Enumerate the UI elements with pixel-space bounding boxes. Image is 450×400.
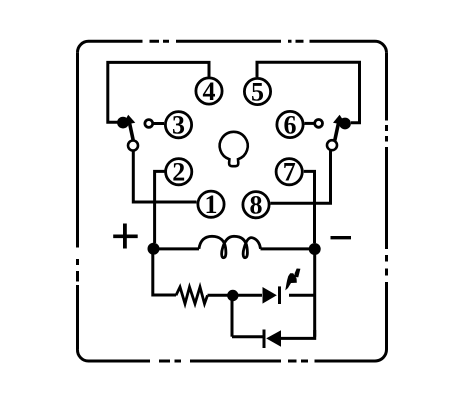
top-right corner [375, 41, 387, 53]
terminal circle beside pin 3 [145, 120, 153, 128]
plus terminal label [113, 224, 138, 249]
bottom row wire left of diode [232, 335, 263, 338]
wire from pin 7 right and down to minus node [304, 171, 315, 243]
wire from left switch contact down and right to pin 1 [133, 151, 196, 203]
svg-text:4: 4 [203, 77, 216, 106]
svg-text:2: 2 [172, 158, 185, 187]
left edge [76, 52, 79, 349]
resistor [176, 287, 208, 304]
pin 1 [198, 190, 224, 219]
wire stub from terminal circle to pin 3 [153, 122, 164, 125]
right edge [385, 53, 388, 350]
pin 5 [244, 78, 270, 107]
top edge [89, 40, 376, 43]
right switch normally-open contact (open circle) [327, 140, 337, 150]
plus node junction dot [148, 243, 160, 255]
coil bus wire left segment [154, 247, 200, 250]
minus node junction dot [309, 243, 321, 255]
bottom-left corner [77, 350, 88, 362]
svg-text:7: 7 [283, 158, 296, 187]
left switch moving-contact blade with arrowhead [123, 115, 136, 141]
svg-text:5: 5 [251, 78, 264, 107]
left switch pivot junction dot [117, 117, 129, 129]
svg-text:6: 6 [284, 111, 297, 140]
wire from plus node down to resistor [153, 249, 176, 295]
wire stub from pin 6 to terminal circle [305, 122, 315, 125]
relay case outline (phantom-line rounded border) [77, 41, 386, 361]
minus terminal label [331, 236, 352, 239]
wire from mid junction down to bottom row [231, 300, 234, 337]
pin 7 [276, 158, 302, 187]
wire from resistor to mid junction [208, 294, 263, 297]
wire from pin 5 up and right to switch pivot [257, 62, 360, 123]
socket center keyhole [220, 132, 248, 166]
pin 2 [166, 158, 192, 187]
wire from pin 2 left and down to plus node [155, 171, 165, 243]
LED D1 (light emitting diode) [263, 286, 280, 304]
svg-text:8: 8 [250, 191, 263, 220]
right switch moving-contact blade with arrowhead [333, 115, 347, 141]
pin 4 [196, 77, 222, 106]
pin 3 [165, 111, 191, 140]
wire from LED to minus branch [289, 294, 315, 297]
svg-text:1: 1 [205, 190, 218, 219]
wire from pin 4 up and left to switch pivot [108, 62, 209, 122]
relay coil [199, 236, 261, 257]
right switch pivot junction dot [339, 118, 351, 130]
bottom row wire right of diode [281, 330, 315, 338]
LED light emission arrow (lightning bolt) [285, 269, 300, 291]
bottom-right corner [375, 350, 387, 362]
wire from pin 8 right and up to right switch contact [271, 151, 331, 204]
top-left corner [78, 41, 89, 52]
coil bus wire right segment [261, 247, 315, 250]
wire from minus node down to bottom row [313, 249, 316, 337]
mid junction dot [227, 290, 238, 301]
terminal circle beside pin 6 [315, 120, 323, 128]
pin 6 [277, 111, 303, 140]
left switch normally-open contact (open circle) [128, 141, 138, 151]
svg-text:3: 3 [172, 111, 185, 140]
protection diode D2 (pointing left) [264, 330, 281, 349]
pin 8 [243, 191, 269, 220]
bottom edge [89, 360, 376, 363]
